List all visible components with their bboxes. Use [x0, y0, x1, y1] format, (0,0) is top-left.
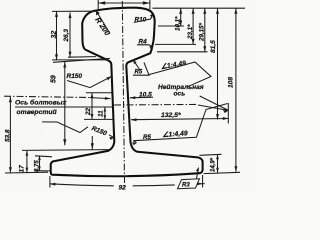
radius label R5 (head-web fillet) flag with leader [133, 61, 149, 76]
dimension 10,1* [175, 8, 183, 31]
dimension 59 (head underside to foot) [51, 58, 111, 145]
dimension 81,5 [210, 8, 219, 119]
bolt-hole axis (dash-dot) [4, 96, 90, 97]
left arrow to web (web thickness) [90, 97, 111, 100]
dimension: head width (top, number cropped) [98, 0, 150, 11]
dimension 8,75 (foot edge) [34, 156, 52, 172]
dimension 23,1* [187, 8, 195, 44]
top reference line (rail top level, right side) [153, 7, 246, 9]
label: Нейтральная ось (neutral axis) with V leader [158, 83, 229, 113]
paper scan noise overlay [0, 0, 256, 192]
radius label R150 (lower, web-foot fillet) with zigzag leader [42, 122, 114, 140]
vertical centerline (dash-dot axis of symmetry) [122, 1, 124, 189]
short vertical reference line at x=228 [227, 103, 229, 124]
dimension 10,5 (web thickness) with right arrow [130, 91, 153, 99]
radius label R10 (head corner) with leader [134, 14, 154, 24]
dimension 14,9* (foot edge thickness) [200, 154, 241, 173]
extension arrow to foot-top line at x=92 [91, 136, 94, 149]
extension lines right of head [155, 26, 208, 52]
dimension 29,15* [198, 8, 206, 52]
dimension 32 (head height, left) [51, 11, 109, 60]
label: Ось болтовых отверстий (axis of bolt holes) [15, 99, 112, 117]
dimension 26,3 (left) [63, 13, 96, 58]
neutral axis (dash-dot) [114, 103, 198, 106]
dimension 132,5* [131, 112, 228, 121]
dimension 53,8 (far left) [5, 97, 49, 173]
radius label R4 (head lower corner) with leader [137, 39, 153, 50]
callout R5 and slope 1:4,49 (foot top surface) [132, 104, 228, 146]
dimension 108 (rail height) [228, 8, 238, 172]
slope label 1:4,49 (head underside) with leader [149, 59, 211, 87]
radius label R150 (upper, web face) with zigzag leader [67, 73, 112, 88]
rail cross-section profile outline [51, 8, 203, 177]
dimension 17 (foot left) [19, 150, 110, 173]
radius label R200 (rail crown) with leader [93, 10, 112, 37]
dimension 22 (web, to bolt axis) [84, 93, 113, 120]
radius label R3 (foot corner) flag with leader [178, 168, 200, 189]
dimension 92 (foot width, bottom) [50, 175, 205, 192]
dimension 11 (web, to bolt axis) [98, 107, 107, 119]
